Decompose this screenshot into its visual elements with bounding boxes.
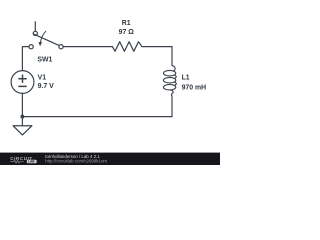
switch SW1 lever — [33, 34, 59, 46]
svg-text:V1: V1 — [38, 75, 47, 82]
switch SW1 top terminal — [33, 31, 37, 35]
svg-text:9.7 V: 9.7 V — [38, 83, 54, 90]
switch SW1 — [29, 22, 63, 49]
switch SW1 right terminal — [59, 45, 63, 49]
watermark LAB badge — [27, 160, 37, 163]
svg-text:97 Ω: 97 Ω — [119, 29, 135, 36]
watermark footer bar — [0, 153, 220, 165]
inductor L1 with leads — [163, 47, 176, 117]
bottom wire — [22, 116, 172, 118]
resistor R1 — [112, 42, 142, 52]
node junction dot — [20, 115, 24, 119]
svg-text:R1: R1 — [122, 20, 131, 27]
wire from resistor R1 to switch SW1 right terminal — [64, 46, 113, 48]
switch SW1 left terminal — [29, 45, 33, 49]
wire from top-right corner to resistor R1 — [142, 46, 172, 48]
watermark logo zigzag wire — [11, 160, 24, 163]
voltage source V1 — [11, 71, 34, 94]
svg-text:http://circuitlab.com/c2698k1n: http://circuitlab.com/c2698k1nm — [45, 158, 107, 163]
svg-text:970 mH: 970 mH — [182, 85, 207, 92]
ground — [13, 117, 32, 135]
svg-text:SW1: SW1 — [37, 57, 52, 64]
wire from switch SW1 left terminal to top-left corner and down to V1 — [22, 47, 28, 71]
wire from V1 bottom to junction node — [21, 93, 23, 116]
switch SW1 top throw stub wire — [34, 22, 36, 31]
svg-text:L1: L1 — [182, 75, 190, 82]
switch SW1 actuation arrow — [40, 31, 45, 43]
svg-text:LAB: LAB — [28, 160, 35, 164]
